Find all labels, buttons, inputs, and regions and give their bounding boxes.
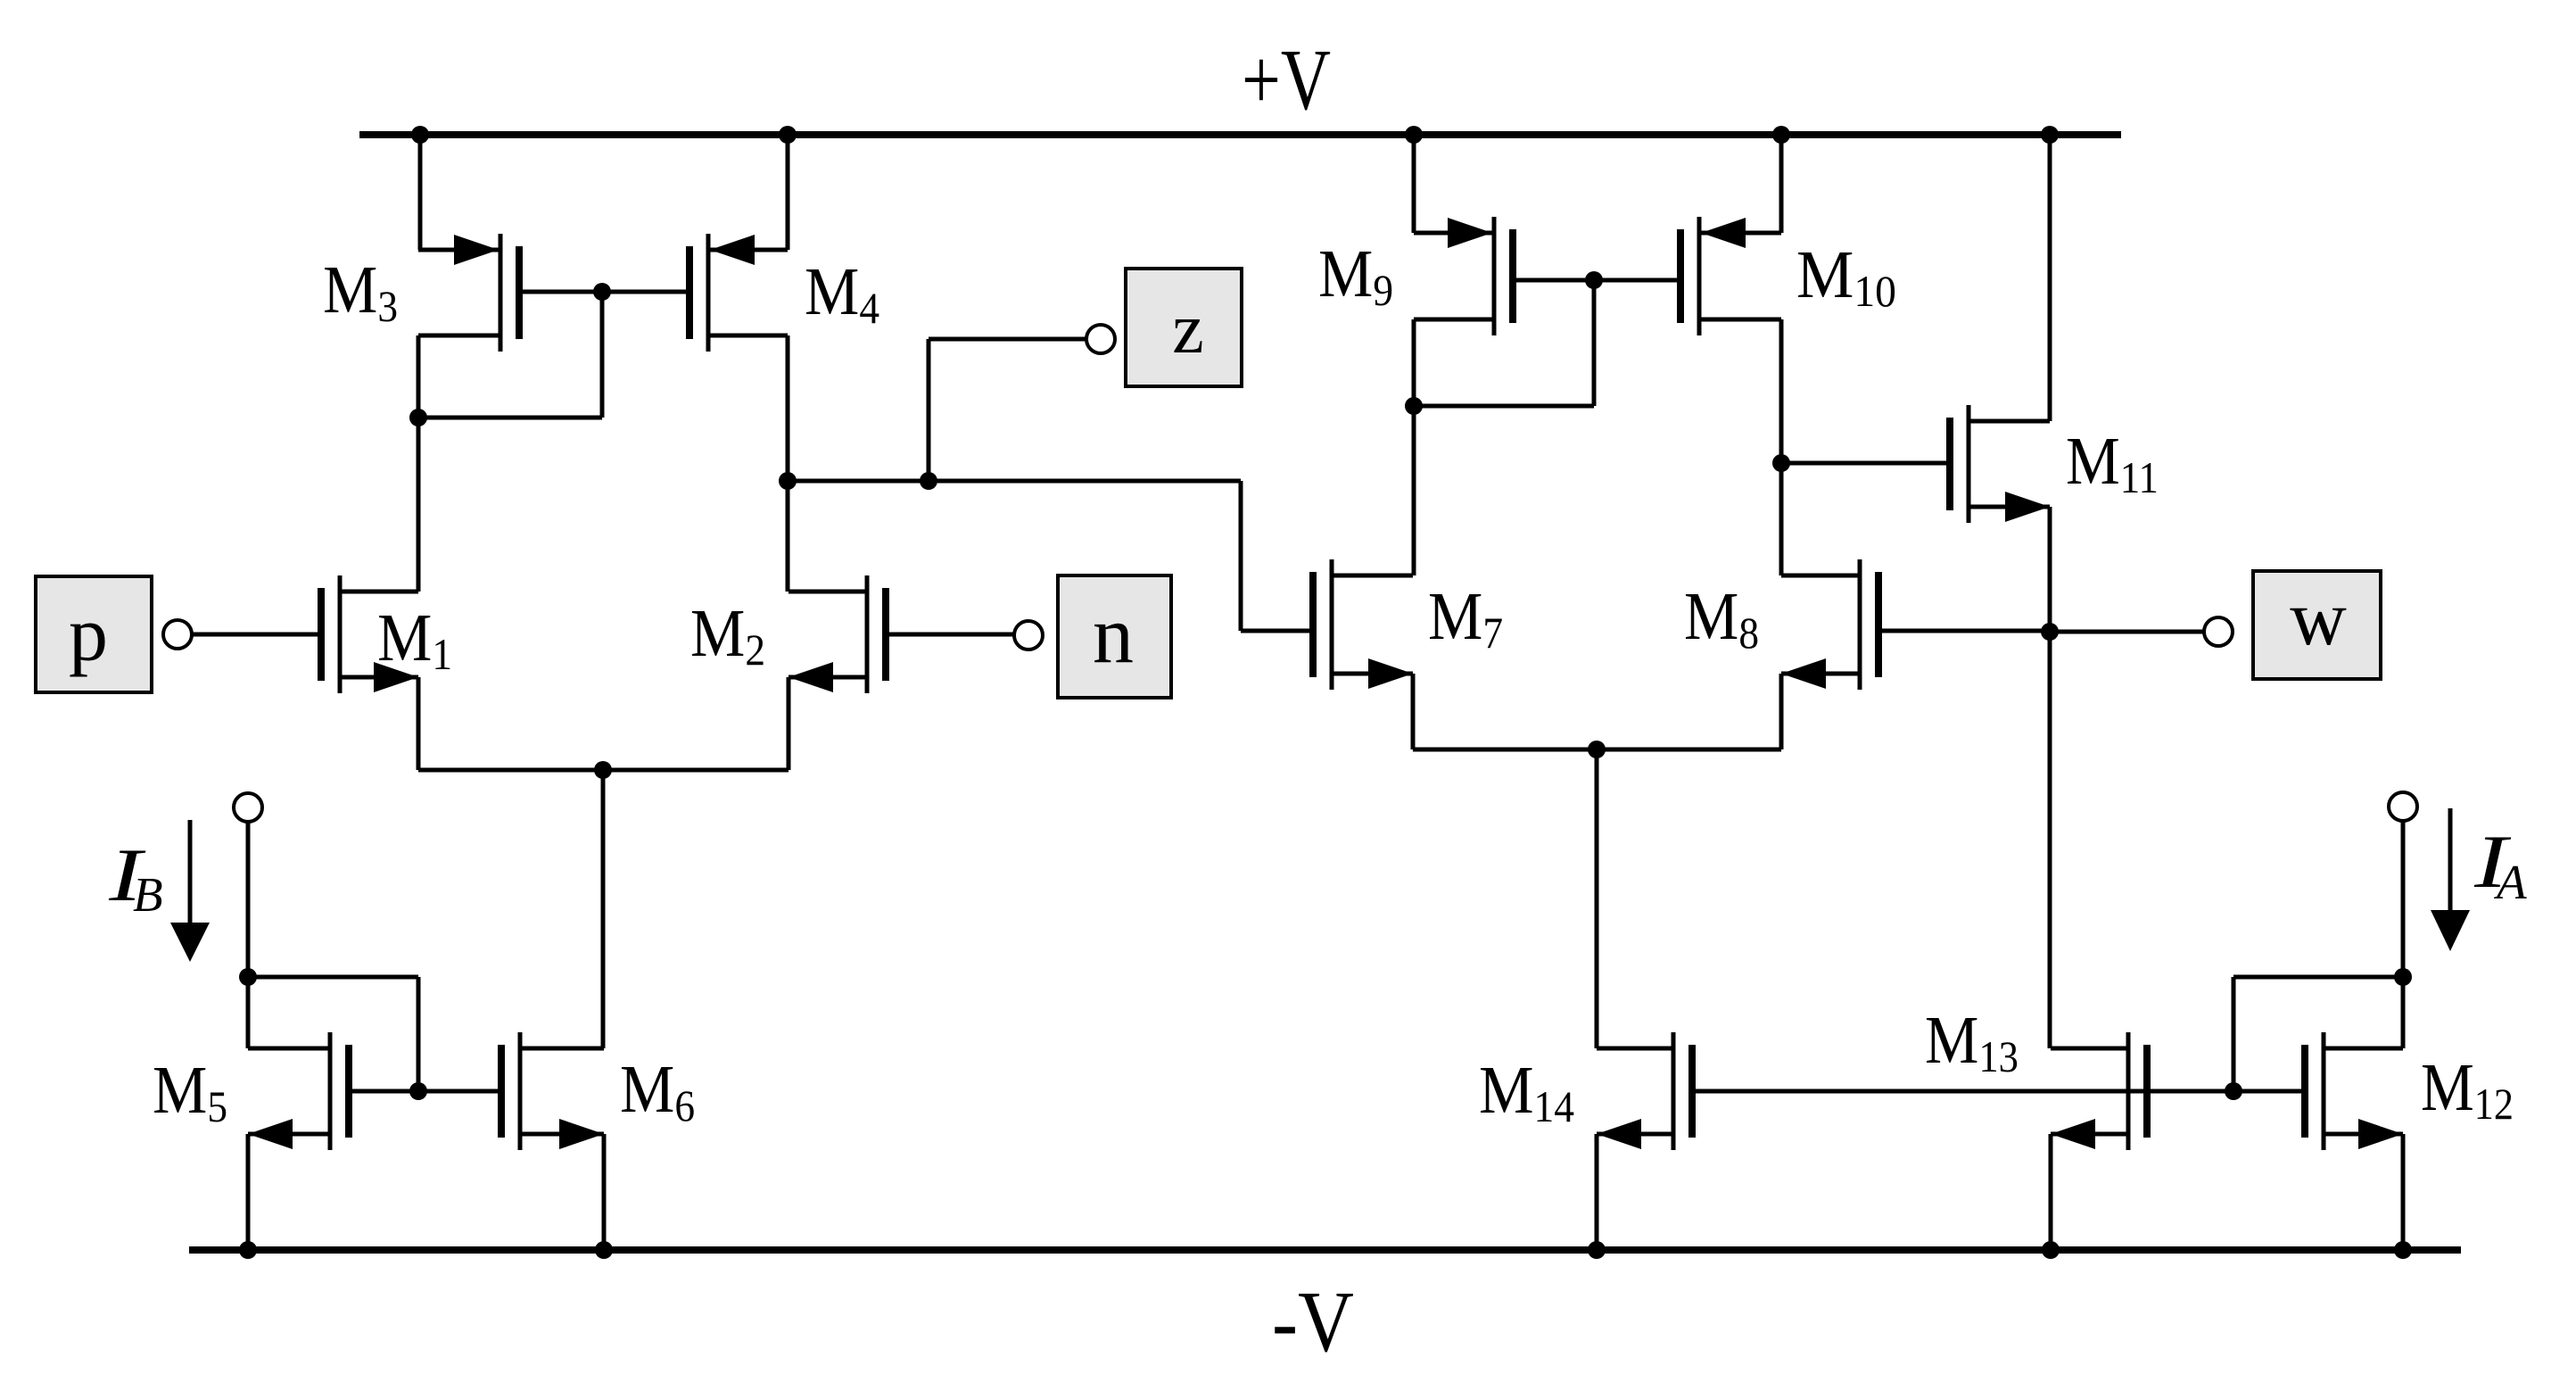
transistor M8 (NMOS)	[1781, 559, 2050, 690]
svg-text:M14: M14	[1479, 1053, 1574, 1131]
port box z	[1126, 269, 1242, 386]
junction tail node (M7/M8 sources)	[1588, 741, 1606, 758]
wire M3/M4 gate node vertical	[600, 292, 605, 418]
svg-text:w: w	[2290, 575, 2347, 662]
transistor M11 (NMOS)	[1781, 405, 2050, 523]
wire I_B node to M5 drain	[246, 977, 251, 1048]
wire M8 source to tail	[1597, 748, 1781, 752]
wire M5 diode connection vertical	[417, 977, 421, 1091]
wire M1 source down	[417, 677, 421, 770]
wire M5 source to -V	[246, 1134, 251, 1250]
terminal circle z	[1086, 325, 1115, 353]
svg-text:M9: M9	[1318, 236, 1393, 315]
svg-text:M2: M2	[690, 596, 765, 675]
-V supply rail	[189, 1246, 2461, 1254]
junction on -V rail at x=677	[595, 1241, 613, 1259]
transistor M7 (NMOS)	[1241, 559, 1413, 690]
current arrow I_B shaft	[188, 820, 193, 928]
wire M11 source down to w node	[2048, 507, 2052, 632]
junction M3 drain node	[409, 409, 427, 426]
wire w node down to M13 drain	[2048, 632, 2052, 1048]
junction on -V rail at x=2694	[2394, 1241, 2412, 1259]
terminal circle n	[1014, 621, 1043, 650]
junction I_B node	[239, 968, 257, 986]
wire diode connection M9 horizontal	[1414, 404, 1594, 409]
port box w	[2253, 571, 2381, 679]
wire M7 source down	[1411, 674, 1416, 749]
svg-text:z: z	[1172, 290, 1204, 368]
svg-text:n: n	[1093, 589, 1134, 680]
wire node A to M7 gate horizontal	[788, 479, 1241, 484]
terminal circle I_B	[234, 793, 262, 822]
wire M9/M10 gate node vertical	[1592, 280, 1597, 406]
current arrow I_A head	[2431, 910, 2470, 951]
junction on -V rail at x=2299	[2042, 1241, 2060, 1259]
transistor M1 (NMOS)	[192, 575, 418, 693]
transistor M5 (NMOS)	[248, 1032, 418, 1150]
junction z tap	[920, 472, 937, 490]
transistor M12 (NMOS)	[2233, 1032, 2403, 1150]
svg-text:p: p	[69, 592, 108, 678]
transistor M9 (PMOS)	[1414, 217, 1594, 335]
wire M1 source to tail	[418, 768, 603, 773]
wire M6 source to -V	[602, 1134, 607, 1250]
svg-text:M6: M6	[620, 1052, 695, 1130]
svg-text:+V: +V	[1242, 32, 1331, 128]
junction on -V rail at x=1790	[1588, 1241, 1606, 1259]
transistor M4 (PMOS)	[602, 234, 788, 352]
wire M8 source down	[1779, 674, 1784, 749]
junction M11 gate tap	[1772, 454, 1790, 472]
svg-text:M3: M3	[323, 252, 398, 331]
wire M5 diode connection horizontal	[248, 975, 418, 980]
svg-text:M7: M7	[1428, 579, 1503, 658]
junction tail node (M1/M2 sources)	[594, 761, 612, 779]
transistor M10 (PMOS)	[1594, 217, 1781, 335]
svg-text:M13: M13	[1925, 1003, 2019, 1081]
wire M11 drain to +V	[2048, 135, 2052, 421]
transistor M6 (NMOS)	[418, 1032, 604, 1150]
port box n	[1058, 575, 1171, 698]
wire M2 source to tail	[603, 768, 788, 773]
port box p	[36, 576, 152, 692]
wire M13 source to -V	[2049, 1134, 2053, 1250]
transistor M14 (NMOS)	[1597, 1032, 2233, 1150]
current arrow I_B head	[170, 923, 210, 962]
svg-text:M5: M5	[153, 1053, 227, 1131]
wire M12 diode connection horizontal	[2233, 975, 2403, 980]
wire tail node to M6 drain	[601, 770, 606, 1048]
wire M14 source to -V	[1595, 1134, 1599, 1250]
svg-text:M8: M8	[1684, 579, 1759, 658]
wire M4 source to +V	[786, 135, 790, 250]
svg-text:-V: -V	[1272, 1274, 1354, 1370]
current arrow I_A shaft	[2448, 808, 2453, 912]
terminal circle w	[2204, 617, 2233, 646]
wire tail node to M14 drain	[1595, 749, 1599, 1048]
svg-text:M11: M11	[2066, 424, 2159, 502]
wire I_A terminal down to M12 drain	[2401, 821, 2406, 1048]
wire z tap vertical	[927, 339, 931, 481]
terminal circle p	[163, 620, 192, 649]
junction M5/M6 gate node	[409, 1082, 427, 1100]
transistor M3 (PMOS)	[418, 234, 602, 352]
wire M3 drain to M1 drain	[417, 335, 421, 592]
junction on -V rail at x=278	[239, 1241, 257, 1259]
wire node A down to M7 gate	[1239, 481, 1243, 631]
svg-text:A: A	[2493, 855, 2527, 909]
svg-text:M4: M4	[805, 254, 879, 333]
junction on +V rail at x=1585	[1405, 126, 1423, 144]
junction on +V rail at x=1997	[1772, 126, 1790, 144]
junction M9 drain node	[1405, 397, 1423, 415]
wire M9 source to +V	[1412, 135, 1416, 233]
wire M3 source to +V	[418, 135, 423, 250]
junction M12/M13/M14 gate bus node	[2225, 1082, 2242, 1100]
junction w node	[2041, 623, 2059, 641]
wire M2 source down	[787, 677, 791, 770]
wire w lead	[2050, 630, 2204, 634]
wire M12 diode connection vertical	[2232, 977, 2236, 1091]
terminal circle I_A	[2389, 792, 2417, 821]
junction on +V rail at x=471	[411, 126, 429, 144]
wire M4 drain to M2 drain	[786, 335, 790, 592]
wire M10 source to +V	[1779, 135, 1784, 233]
+V supply rail	[359, 131, 2121, 138]
wire M7 source to tail	[1413, 748, 1597, 752]
wire z lead	[929, 337, 1087, 342]
junction node A (M4 drain / M2 drain)	[779, 472, 797, 490]
wire M10 drain to M8 drain	[1779, 319, 1784, 575]
transistor M2 (NMOS)	[788, 575, 1014, 693]
junction on +V rail at x=2298	[2041, 126, 2059, 144]
svg-text:M10: M10	[1796, 237, 1896, 316]
junction M9/M10 gate node	[1585, 271, 1603, 289]
svg-text:M12: M12	[2421, 1050, 2514, 1129]
svg-text:M1: M1	[377, 600, 452, 679]
wire diode connection M3 horizontal	[418, 416, 602, 420]
wire I_B terminal down	[246, 822, 251, 977]
junction on +V rail at x=883	[779, 126, 797, 144]
svg-text:B: B	[133, 867, 163, 922]
junction I_A node	[2394, 968, 2412, 986]
wire M12 source to -V	[2401, 1134, 2406, 1250]
junction M3/M4 gate node	[593, 283, 611, 301]
transistor M13 (NMOS)	[2051, 1032, 2147, 1150]
wire M9 drain to M7 drain	[1412, 319, 1416, 575]
